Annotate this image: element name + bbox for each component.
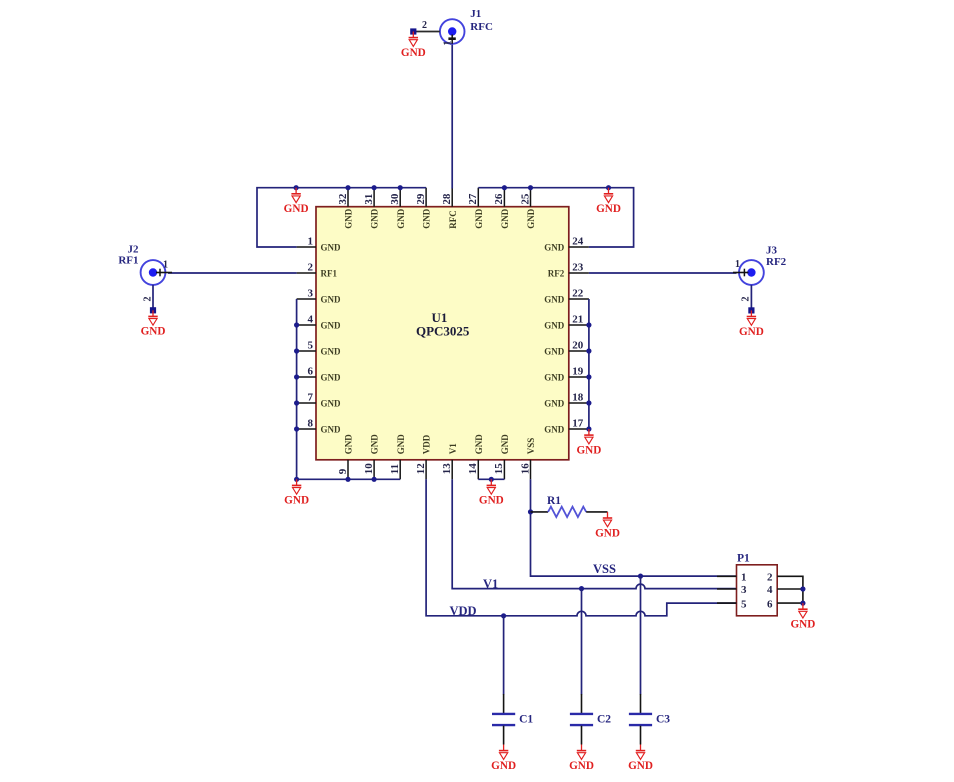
- svg-text:GND: GND: [544, 425, 565, 435]
- ground below C3: [628, 745, 653, 772]
- pin 23 (RF2) of U1: [548, 262, 589, 279]
- svg-text:2: 2: [422, 20, 427, 31]
- junction dot J3 pin2 end: [748, 307, 754, 313]
- svg-text:C3: C3: [656, 713, 670, 725]
- wire C1 drop: [503, 616, 505, 695]
- svg-text:1: 1: [442, 41, 453, 46]
- pin 24 (GND) of U1: [544, 236, 589, 253]
- svg-text:GND: GND: [500, 208, 510, 229]
- wire left GND bus pins 3-8: [296, 299, 298, 479]
- junction dot pin9 tap: [345, 477, 350, 482]
- svg-text:GND: GND: [321, 243, 342, 253]
- svg-text:RFC: RFC: [470, 21, 493, 33]
- svg-text:GND: GND: [474, 434, 484, 455]
- svg-text:26: 26: [493, 193, 505, 205]
- svg-text:2: 2: [741, 297, 752, 302]
- junction dot pin19: [586, 374, 591, 379]
- svg-text:P1: P1: [737, 552, 750, 564]
- pin 31 (GND) of U1: [363, 188, 380, 229]
- junction dot pin18: [586, 400, 591, 405]
- ground J2: [141, 310, 166, 337]
- ground top-right: [596, 188, 621, 215]
- svg-text:GND: GND: [544, 321, 565, 331]
- connector J3 RF2: [733, 245, 787, 285]
- junction dot pin5: [294, 348, 299, 353]
- pin 12 (VDD) of U1: [415, 434, 432, 479]
- pin 17 (GND) of U1: [544, 418, 589, 435]
- wire pins 14-15 to ground: [478, 478, 504, 480]
- svg-text:VSS: VSS: [593, 562, 616, 576]
- svg-text:29: 29: [415, 193, 427, 205]
- svg-text:R1: R1: [547, 495, 561, 507]
- junction dot VDD/C1: [501, 613, 506, 618]
- wire bottom-left bus to pin11: [297, 478, 401, 480]
- svg-text:RF2: RF2: [766, 256, 787, 268]
- pin 4 (GND) of U1: [297, 314, 341, 331]
- ground top-left: [284, 188, 309, 215]
- svg-text:3: 3: [308, 288, 314, 300]
- connector P1: [737, 552, 778, 616]
- svg-text:GND: GND: [321, 425, 342, 435]
- junction dot V1/C2: [579, 586, 584, 591]
- capacitor C1: [492, 694, 533, 745]
- wire right GND bus pins 22-17: [588, 299, 590, 429]
- junction dot pin8: [294, 426, 299, 431]
- wire VDD: U1 pin12 down, right, jog up to P1 pin5: [426, 479, 736, 616]
- junction dot VSS/R1: [528, 509, 533, 514]
- pin 6 (GND) of U1: [297, 366, 341, 383]
- pin 9 (GND) of U1: [337, 434, 354, 480]
- junction dot pin21: [586, 322, 591, 327]
- pin 20 (GND) of U1: [544, 340, 589, 357]
- pin 28 (RFC) of U1: [441, 188, 458, 229]
- pin 2 (RF1) of U1: [297, 262, 338, 279]
- wire RFC: J1 pin1 down to U1 pin28: [451, 44, 453, 189]
- pin 27 (GND) of U1: [467, 188, 484, 229]
- pin 26 (GND) of U1: [493, 188, 510, 229]
- wire J1 pin2 to ground: [413, 31, 440, 33]
- svg-text:23: 23: [572, 262, 584, 274]
- wire RF2: U1 pin23 to J3 pin1: [589, 272, 737, 274]
- svg-text:GND: GND: [422, 208, 432, 229]
- svg-text:GND: GND: [396, 434, 406, 455]
- svg-text:5: 5: [741, 598, 747, 610]
- wire pin1 to top-left bus: [257, 188, 426, 247]
- svg-text:20: 20: [572, 340, 584, 352]
- ground bottom-left: [284, 479, 309, 506]
- svg-text:V1: V1: [448, 443, 458, 454]
- svg-text:24: 24: [572, 236, 584, 248]
- pin 10 (GND) of U1: [363, 434, 380, 480]
- wire VSS: U1 pin16 down, right to P1 pin1: [531, 479, 737, 576]
- svg-text:1: 1: [741, 572, 747, 584]
- svg-text:GND: GND: [500, 434, 510, 455]
- junction dot pin7: [294, 400, 299, 405]
- junction dot pin17: [586, 426, 591, 431]
- junction dot pin32 tap: [345, 185, 350, 190]
- svg-text:3: 3: [741, 584, 747, 596]
- ground J1: [401, 32, 426, 59]
- junction dot J2 pin2 end: [150, 307, 156, 313]
- svg-text:15: 15: [493, 463, 505, 475]
- svg-text:J2: J2: [128, 243, 140, 255]
- junction dot VSS/C3: [638, 574, 643, 579]
- svg-text:11: 11: [389, 464, 401, 474]
- ground P1: [790, 603, 815, 630]
- svg-text:8: 8: [308, 418, 314, 430]
- svg-text:J1: J1: [470, 8, 481, 20]
- junction dot pin6: [294, 374, 299, 379]
- wire J3 pin2 to ground: [750, 285, 752, 311]
- svg-text:RF1: RF1: [118, 255, 138, 267]
- junction dot pins14/15 GND: [489, 477, 494, 482]
- pin 21 (GND) of U1: [544, 314, 589, 331]
- svg-text:GND: GND: [321, 399, 342, 409]
- svg-text:31: 31: [363, 194, 375, 205]
- svg-text:6: 6: [308, 366, 314, 378]
- pin 19 (GND) of U1: [544, 366, 589, 383]
- svg-text:C2: C2: [597, 713, 611, 725]
- svg-text:9: 9: [337, 468, 349, 474]
- ground below C1: [491, 745, 516, 772]
- svg-text:22: 22: [572, 288, 584, 300]
- junction dot top-left GND tap: [294, 185, 299, 190]
- svg-text:13: 13: [441, 463, 453, 475]
- pin 7 (GND) of U1: [297, 392, 341, 409]
- svg-text:2: 2: [308, 262, 314, 274]
- svg-text:19: 19: [572, 366, 584, 378]
- svg-text:1: 1: [735, 259, 740, 270]
- svg-text:GND: GND: [370, 434, 380, 455]
- pin 1 (GND) of U1: [297, 236, 341, 253]
- wire C3 drop: [640, 576, 642, 694]
- junction dot P1 pin4: [800, 586, 805, 591]
- svg-text:GND: GND: [321, 321, 342, 331]
- svg-text:GND: GND: [544, 295, 565, 305]
- svg-text:GND: GND: [321, 295, 342, 305]
- junction dot top-right GND tap: [606, 185, 611, 190]
- wire pin27 bus to pin24: [478, 188, 633, 247]
- pin 22 (GND) of U1: [544, 288, 589, 305]
- svg-text:GND: GND: [344, 208, 354, 229]
- wire V1: U1 pin13 down, right to P1 pin3: [452, 479, 736, 588]
- wire J2 pin2 to ground: [152, 285, 154, 310]
- svg-text:C1: C1: [519, 713, 533, 725]
- svg-text:2: 2: [767, 572, 773, 584]
- junction dot pin26 tap: [502, 185, 507, 190]
- junction dot pin10 tap: [372, 477, 377, 482]
- pin 18 (GND) of U1: [544, 392, 589, 409]
- ground J3: [739, 310, 764, 337]
- wire P1 pin2/4/6 to ground bus: [777, 576, 803, 603]
- IC U1 QPC3025 body: [316, 207, 569, 460]
- junction dot P1 pin6: [800, 601, 805, 606]
- svg-text:J3: J3: [766, 245, 778, 257]
- junction dot J1 pin2 end: [410, 28, 416, 34]
- svg-text:GND: GND: [544, 373, 565, 383]
- svg-text:25: 25: [519, 193, 531, 205]
- svg-text:17: 17: [572, 418, 584, 430]
- svg-text:GND: GND: [321, 347, 342, 357]
- svg-text:GND: GND: [370, 208, 380, 229]
- resistor R1: [531, 495, 608, 517]
- svg-text:GND: GND: [544, 399, 565, 409]
- svg-text:2: 2: [142, 297, 153, 302]
- svg-text:12: 12: [415, 463, 427, 475]
- capacitor C3: [629, 694, 670, 745]
- pin 15 (GND) of U1: [493, 434, 510, 480]
- junction dot bus corner: [294, 477, 299, 482]
- svg-text:7: 7: [308, 392, 314, 404]
- wire C2 drop: [581, 589, 583, 695]
- pin 8 (GND) of U1: [297, 418, 341, 435]
- junction dot pin25 tap: [528, 185, 533, 190]
- svg-text:GND: GND: [396, 208, 406, 229]
- connector J2 RF1: [118, 243, 172, 285]
- pin 29 (GND) of U1: [415, 188, 432, 229]
- svg-text:14: 14: [467, 463, 479, 475]
- pin stubs of P1 left side: [717, 575, 737, 577]
- svg-text:16: 16: [519, 463, 531, 475]
- svg-text:GND: GND: [474, 208, 484, 229]
- connector J1 RFC: [440, 8, 493, 45]
- pin 32 (GND) of U1: [337, 188, 354, 229]
- svg-text:1: 1: [163, 259, 168, 270]
- svg-text:30: 30: [389, 193, 401, 205]
- svg-text:27: 27: [467, 193, 479, 205]
- svg-text:GND: GND: [344, 434, 354, 455]
- svg-text:21: 21: [572, 314, 583, 326]
- svg-text:GND: GND: [321, 373, 342, 383]
- svg-text:32: 32: [337, 193, 349, 205]
- svg-text:GND: GND: [544, 243, 565, 253]
- svg-text:VDD: VDD: [422, 434, 432, 454]
- junction dot pin20: [586, 348, 591, 353]
- svg-text:4: 4: [308, 314, 314, 326]
- wire RF1: J2 pin1 to U1 pin2: [168, 272, 297, 274]
- svg-text:4: 4: [767, 584, 773, 596]
- svg-text:5: 5: [308, 340, 314, 352]
- ground pins14/15: [479, 479, 504, 506]
- capacitor C2: [570, 694, 611, 745]
- junction dot pin4: [294, 322, 299, 327]
- pin 11 (GND) of U1: [389, 434, 406, 480]
- svg-text:28: 28: [441, 193, 453, 205]
- svg-text:1: 1: [308, 236, 314, 248]
- pin 30 (GND) of U1: [389, 188, 406, 229]
- svg-text:10: 10: [363, 463, 375, 475]
- pin 16 (VSS) of U1: [519, 438, 536, 480]
- pin 3 (GND) of U1: [297, 288, 341, 305]
- junction dot pin31 tap: [372, 185, 377, 190]
- ground below C2: [569, 745, 594, 772]
- svg-text:VSS: VSS: [526, 438, 536, 455]
- svg-text:QPC3025: QPC3025: [416, 323, 470, 338]
- svg-text:RF2: RF2: [548, 269, 565, 279]
- pin 14 (GND) of U1: [467, 434, 484, 480]
- pin 5 (GND) of U1: [297, 340, 341, 357]
- svg-text:RF1: RF1: [321, 269, 338, 279]
- svg-text:VDD: VDD: [450, 604, 477, 618]
- ground right-bus: [576, 429, 601, 456]
- svg-text:18: 18: [572, 392, 584, 404]
- svg-text:GND: GND: [526, 208, 536, 229]
- svg-text:6: 6: [767, 598, 773, 610]
- ground R1: [595, 512, 620, 539]
- pin 13 (V1) of U1: [441, 443, 458, 480]
- svg-text:GND: GND: [544, 347, 565, 357]
- pin 25 (GND) of U1: [519, 188, 536, 229]
- svg-text:RFC: RFC: [448, 210, 458, 229]
- junction dot pin30 tap: [398, 185, 403, 190]
- svg-text:V1: V1: [483, 577, 498, 591]
